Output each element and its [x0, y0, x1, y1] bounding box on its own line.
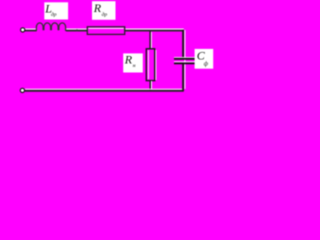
svg-text:C: C — [197, 48, 206, 62]
svg-text:др: др — [102, 11, 108, 18]
svg-text:ф: ф — [204, 60, 209, 67]
svg-text:R: R — [93, 1, 102, 15]
svg-text:R: R — [124, 52, 133, 66]
svg-text:др: др — [51, 11, 57, 18]
svg-text:н: н — [133, 63, 136, 69]
